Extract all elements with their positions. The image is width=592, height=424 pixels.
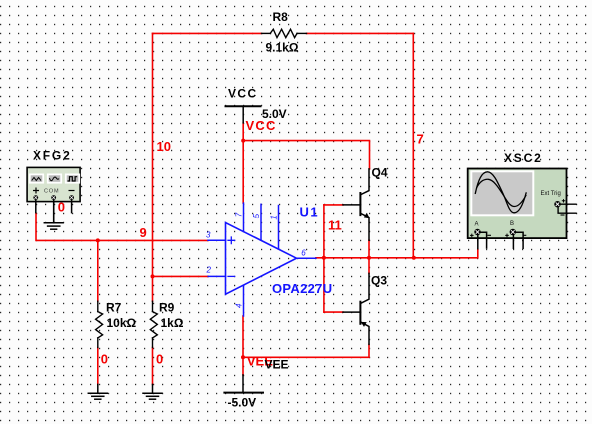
svg-text:4: 4 [235, 303, 244, 308]
transistor Q4 (NPN) [343, 169, 369, 240]
wire net11 loop vertical [323, 205, 325, 312]
wire net10 vertical from R8 left end down to R9 [152, 33, 154, 301]
plus label [33, 188, 39, 194]
svg-text:9.1kΩ: 9.1kΩ [266, 41, 299, 55]
svg-text:3: 3 [206, 231, 211, 240]
resistor R9 (vertical, 1k) [150, 301, 157, 347]
junction node VEE [241, 355, 245, 359]
wire net11 to Q3 base [324, 311, 343, 313]
A terminal stubs [477, 235, 479, 250]
wire VCC to Q4 collector [243, 141, 369, 169]
op-amp U1 triangle [226, 223, 297, 295]
power VCC symbol [226, 106, 261, 123]
junction node 9 at R7 branch [96, 238, 100, 242]
svg-text:2: 2 [206, 266, 212, 275]
zigzag wave button icon [32, 178, 41, 181]
svg-text:VCC: VCC [246, 118, 277, 133]
resistor R8 (horizontal, 9.1k) [262, 29, 307, 37]
junction node 11 at Q4 emitter / Q3 collector [367, 256, 371, 260]
wire R8 left red segment [153, 32, 262, 34]
svg-text:10kΩ: 10kΩ [107, 316, 137, 330]
svg-text:7: 7 [417, 132, 424, 147]
svg-text:A: A [475, 222, 479, 228]
wire R7 bottom to ground [97, 348, 99, 385]
svg-text:-5.0V: -5.0V [228, 396, 257, 410]
ground (R9) [143, 384, 162, 399]
svg-text:9: 9 [140, 225, 147, 240]
op-amp minus sign [228, 275, 235, 277]
svg-text:R8: R8 [273, 10, 289, 24]
ground (R7) [88, 384, 107, 399]
sine wave button icon [50, 177, 60, 181]
terminal - [69, 195, 74, 200]
op-amp output lead pin 6 [297, 257, 316, 259]
instrument XFG2 (function generator) [27, 167, 80, 222]
wire Q4 emitter to Q3 top [368, 240, 370, 273]
svg-text:6: 6 [301, 248, 306, 257]
svg-text:0: 0 [156, 352, 163, 367]
svg-text:10: 10 [157, 139, 171, 154]
junction node 11 at op-amp output [322, 256, 326, 260]
wire net11 to Q4 base [324, 204, 343, 206]
junction node VCC [241, 139, 245, 143]
wire op-amp pin4 to VEE [242, 316, 244, 375]
wire output net11 row [316, 250, 478, 258]
svg-text:COM: COM [44, 188, 60, 194]
svg-text:OPA227U: OPA227U [272, 281, 332, 296]
svg-text:0: 0 [101, 352, 108, 367]
instrument XSC2 (oscilloscope) [468, 169, 577, 250]
op-amp input leads [208, 239, 226, 241]
svg-text:R7: R7 [106, 301, 122, 315]
wire minus input row [153, 275, 209, 277]
svg-text:VEE: VEE [265, 358, 289, 372]
svg-text:5: 5 [252, 213, 261, 218]
wire R9 bottom to ground [152, 348, 154, 385]
wire net7 vertical down to output row [412, 33, 414, 257]
svg-text:VCC: VCC [228, 87, 258, 101]
svg-text:XFG2: XFG2 [33, 148, 72, 162]
wire net9: XFG plus stub red part and row to op-amp [36, 213, 208, 240]
ext trig terminal [554, 201, 560, 207]
junction node 10 at R9 / inverting input [151, 274, 155, 278]
square wave button icon [68, 177, 78, 181]
svg-text:R9: R9 [159, 301, 175, 315]
svg-text:Q4: Q4 [372, 166, 388, 180]
op-amp top pins 7,5,1 [243, 203, 245, 231]
transistor Q3 (PNP) [343, 273, 369, 344]
ext trig stub lines [560, 203, 577, 205]
svg-text:B: B [510, 221, 514, 227]
XFG2 terminal stubs [35, 200, 37, 214]
B terminal stubs [512, 235, 514, 249]
wire VCC stem red down to op-amp pin7 [242, 123, 244, 203]
svg-text:U1: U1 [300, 205, 320, 220]
svg-text:1: 1 [270, 215, 279, 219]
terminal COM [51, 195, 56, 200]
junction node 11 at feedback R8 [412, 256, 416, 260]
wire Q3 bottom to VEE row [243, 344, 369, 357]
svg-text:7: 7 [235, 212, 244, 217]
svg-text:Q3: Q3 [371, 274, 387, 288]
resistor R7 (vertical, 10k) [96, 301, 103, 347]
terminal + [33, 195, 38, 200]
svg-text:11: 11 [328, 218, 342, 233]
op-amp bottom pin 4 [243, 285, 245, 316]
op-amp plus sign [228, 237, 235, 244]
wire R8 right red segment to net7 corner [307, 32, 414, 34]
svg-text:Ext Trig: Ext Trig [541, 191, 561, 197]
ground (XFG2 COM) [44, 200, 63, 230]
scope sine wave [475, 172, 526, 213]
power VEE symbol (-5.0V) [224, 375, 263, 393]
svg-text:XSC2: XSC2 [504, 151, 543, 165]
svg-text:0: 0 [58, 200, 65, 215]
minus label [69, 190, 75, 192]
wire R7 branch down [97, 240, 99, 301]
svg-text:1kΩ: 1kΩ [161, 316, 184, 330]
